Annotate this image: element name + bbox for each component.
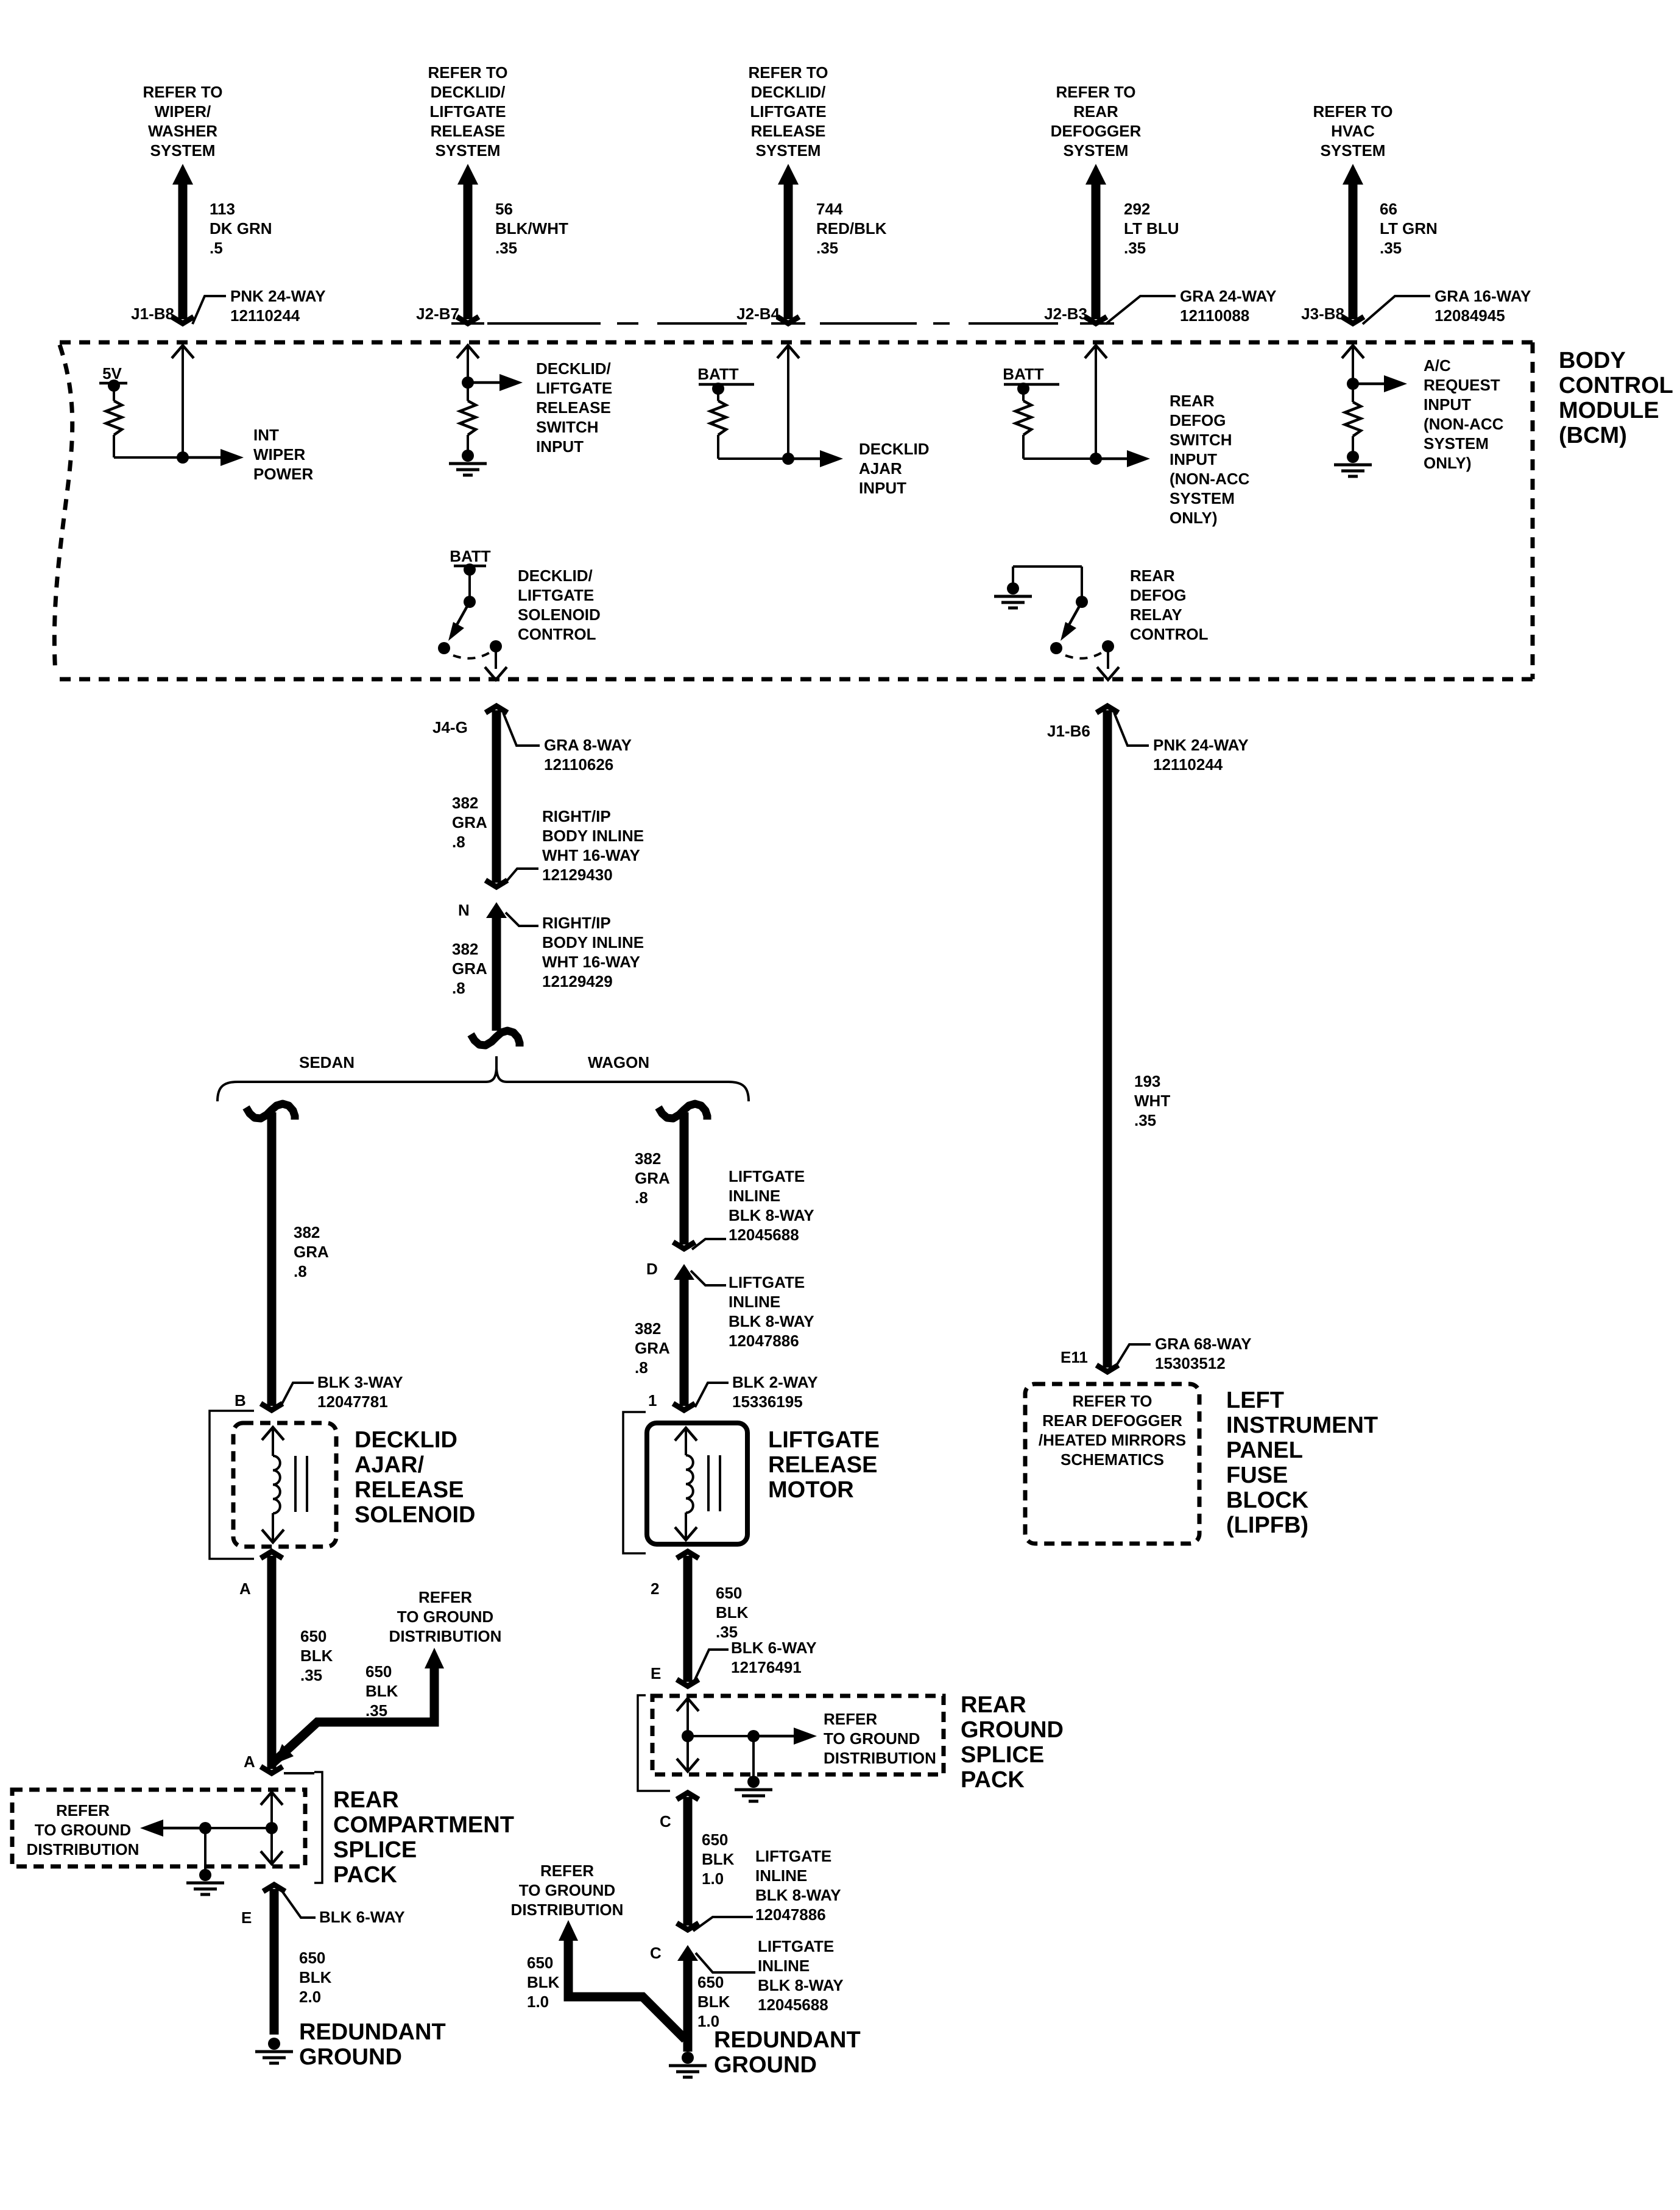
svg-text:REFER TO: REFER TO <box>428 63 508 82</box>
svg-text:113: 113 <box>210 200 235 218</box>
svg-text:WHT 16-WAY: WHT 16-WAY <box>542 953 640 971</box>
svg-text:REQUEST: REQUEST <box>1424 376 1500 394</box>
svg-text:GRA: GRA <box>452 813 487 831</box>
svg-text:382: 382 <box>452 940 478 958</box>
svg-text:LEFT: LEFT <box>1226 1388 1284 1413</box>
svg-text:MOTOR: MOTOR <box>768 1477 854 1503</box>
svg-text:C: C <box>660 1812 671 1830</box>
svg-text:PACK: PACK <box>961 1767 1025 1793</box>
svg-text:REAR DEFOGGER: REAR DEFOGGER <box>1042 1411 1182 1430</box>
svg-text:LIFTGATE: LIFTGATE <box>536 379 612 397</box>
svg-text:SPLICE: SPLICE <box>333 1837 417 1863</box>
svg-text:TO GROUND: TO GROUND <box>824 1729 920 1748</box>
svg-text:LIFTGATE: LIFTGATE <box>429 102 506 121</box>
svg-text:DEFOG: DEFOG <box>1130 586 1186 604</box>
svg-text:B: B <box>235 1391 246 1410</box>
svg-text:BLK: BLK <box>527 1973 560 1991</box>
svg-text:382: 382 <box>635 1319 661 1338</box>
svg-text:PANEL: PANEL <box>1226 1438 1303 1463</box>
svg-text:1.0: 1.0 <box>702 1869 724 1888</box>
svg-text:POWER: POWER <box>253 465 313 483</box>
svg-text:TO GROUND: TO GROUND <box>519 1881 615 1899</box>
svg-text:RELEASE: RELEASE <box>768 1452 877 1478</box>
svg-text:DECKLID/: DECKLID/ <box>751 83 826 101</box>
svg-text:SEDAN: SEDAN <box>299 1053 355 1071</box>
svg-text:RELAY: RELAY <box>1130 605 1182 624</box>
svg-text:12084945: 12084945 <box>1435 306 1505 325</box>
svg-text:650: 650 <box>300 1627 326 1645</box>
svg-text:RIGHT/IP: RIGHT/IP <box>542 914 611 932</box>
svg-text:GRA: GRA <box>452 959 487 978</box>
svg-text:E: E <box>241 1908 252 1927</box>
svg-text:SPLICE: SPLICE <box>961 1742 1044 1768</box>
svg-text:WASHER: WASHER <box>148 122 217 140</box>
svg-text:650: 650 <box>702 1830 728 1849</box>
svg-text:REFER: REFER <box>824 1710 877 1728</box>
svg-text:BLK 6-WAY: BLK 6-WAY <box>319 1908 405 1926</box>
svg-text:BLK 6-WAY: BLK 6-WAY <box>731 1639 817 1657</box>
svg-text:.35: .35 <box>300 1666 322 1684</box>
svg-text:GRA: GRA <box>635 1339 670 1357</box>
svg-text:BLK: BLK <box>300 1647 333 1665</box>
svg-text:J2-B7: J2-B7 <box>416 305 459 323</box>
svg-text:BLK: BLK <box>716 1603 749 1622</box>
svg-text:REAR: REAR <box>1073 102 1118 121</box>
svg-text:650: 650 <box>299 1949 325 1967</box>
svg-text:WHT: WHT <box>1134 1092 1170 1110</box>
svg-text:.35: .35 <box>1134 1111 1156 1129</box>
svg-text:REFER TO: REFER TO <box>1313 102 1393 121</box>
svg-text:LT GRN: LT GRN <box>1380 219 1438 238</box>
svg-text:DISTRIBUTION: DISTRIBUTION <box>27 1840 139 1859</box>
svg-text:.35: .35 <box>495 239 517 257</box>
svg-text:A/C: A/C <box>1424 356 1451 375</box>
svg-text:SYSTEM: SYSTEM <box>436 141 501 160</box>
svg-text:DEFOGGER: DEFOGGER <box>1051 122 1142 140</box>
svg-text:DISTRIBUTION: DISTRIBUTION <box>389 1627 502 1645</box>
svg-text:SWITCH: SWITCH <box>536 418 599 436</box>
svg-text:AJAR: AJAR <box>859 459 902 478</box>
svg-text:12047886: 12047886 <box>755 1905 826 1924</box>
svg-text:REFER: REFER <box>540 1862 594 1880</box>
svg-text:REAR: REAR <box>333 1787 399 1813</box>
svg-text:12045688: 12045688 <box>729 1226 799 1244</box>
svg-text:RELEASE: RELEASE <box>431 122 506 140</box>
svg-text:SYSTEM: SYSTEM <box>1321 141 1386 160</box>
svg-text:REDUNDANT: REDUNDANT <box>299 2019 446 2045</box>
svg-text:650: 650 <box>716 1584 742 1602</box>
svg-text:12047886: 12047886 <box>729 1332 799 1350</box>
svg-text:DECKLID/: DECKLID/ <box>518 567 593 585</box>
svg-text:12129429: 12129429 <box>542 972 613 990</box>
svg-text:2: 2 <box>651 1580 659 1598</box>
svg-text:SYSTEM: SYSTEM <box>1424 434 1489 453</box>
svg-text:COMPARTMENT: COMPARTMENT <box>333 1812 514 1838</box>
svg-text:GRA 8-WAY: GRA 8-WAY <box>544 736 632 754</box>
svg-text:REAR: REAR <box>961 1692 1026 1718</box>
svg-text:15336195: 15336195 <box>732 1393 803 1411</box>
svg-text:WIPER/: WIPER/ <box>155 102 211 121</box>
svg-text:PNK 24-WAY: PNK 24-WAY <box>1153 736 1249 754</box>
svg-text:GRA 16-WAY: GRA 16-WAY <box>1435 287 1531 305</box>
svg-text:15303512: 15303512 <box>1155 1354 1226 1372</box>
svg-text:LT BLU: LT BLU <box>1124 219 1179 238</box>
svg-text:BODY INLINE: BODY INLINE <box>542 827 644 845</box>
svg-text:66: 66 <box>1380 200 1397 218</box>
svg-text:(LIPFB): (LIPFB) <box>1226 1513 1308 1538</box>
svg-text:DISTRIBUTION: DISTRIBUTION <box>511 1901 624 1919</box>
svg-text:RELEASE: RELEASE <box>751 122 826 140</box>
svg-text:GRA: GRA <box>635 1169 670 1187</box>
svg-text:REAR: REAR <box>1170 392 1215 410</box>
svg-text:DECKLID: DECKLID <box>355 1427 457 1453</box>
svg-text:292: 292 <box>1124 200 1150 218</box>
svg-text:382: 382 <box>294 1223 320 1241</box>
svg-text:BLK 2-WAY: BLK 2-WAY <box>732 1373 818 1391</box>
svg-text:J1-B8: J1-B8 <box>131 305 174 323</box>
svg-text:LIFTGATE: LIFTGATE <box>729 1167 805 1185</box>
svg-text:A: A <box>244 1753 255 1771</box>
svg-text:PACK: PACK <box>333 1862 397 1888</box>
svg-text:INLINE: INLINE <box>755 1866 807 1885</box>
svg-text:BLK 8-WAY: BLK 8-WAY <box>729 1312 814 1330</box>
svg-text:744: 744 <box>816 200 843 218</box>
svg-text:(BCM): (BCM) <box>1559 423 1627 448</box>
svg-text:INPUT: INPUT <box>1424 395 1471 414</box>
svg-text:.8: .8 <box>294 1262 307 1280</box>
svg-text:382: 382 <box>452 794 478 812</box>
svg-text:GRA 24-WAY: GRA 24-WAY <box>1180 287 1276 305</box>
svg-text:650: 650 <box>527 1954 553 1972</box>
svg-text:REFER: REFER <box>56 1801 110 1820</box>
svg-text:.35: .35 <box>1124 239 1146 257</box>
svg-text:MODULE: MODULE <box>1559 398 1659 423</box>
svg-text:BLK 3-WAY: BLK 3-WAY <box>317 1373 403 1391</box>
svg-text:DK GRN: DK GRN <box>210 219 272 238</box>
svg-text:BLK: BLK <box>365 1682 398 1700</box>
svg-text:LIFTGATE: LIFTGATE <box>729 1273 805 1291</box>
svg-text:DECKLID: DECKLID <box>859 440 930 458</box>
svg-text:.35: .35 <box>365 1701 387 1720</box>
svg-text:DISTRIBUTION: DISTRIBUTION <box>824 1749 936 1767</box>
svg-text:TO GROUND: TO GROUND <box>397 1608 493 1626</box>
svg-text:BLK: BLK <box>299 1968 332 1986</box>
svg-text:BATT: BATT <box>697 365 739 383</box>
svg-text:PNK 24-WAY: PNK 24-WAY <box>230 287 326 305</box>
svg-text:J4-G: J4-G <box>432 718 468 736</box>
svg-text:1.0: 1.0 <box>527 1993 549 2011</box>
svg-text:AJAR/: AJAR/ <box>355 1452 424 1478</box>
svg-text:RIGHT/IP: RIGHT/IP <box>542 807 611 825</box>
svg-text:INLINE: INLINE <box>729 1293 780 1311</box>
svg-text:BLK 8-WAY: BLK 8-WAY <box>755 1886 841 1904</box>
svg-text:INPUT: INPUT <box>859 479 906 497</box>
svg-text:HVAC: HVAC <box>1331 122 1375 140</box>
svg-text:.8: .8 <box>635 1358 648 1377</box>
svg-text:.8: .8 <box>635 1188 648 1207</box>
svg-text:(NON-ACC: (NON-ACC <box>1424 415 1504 433</box>
svg-text:12110088: 12110088 <box>1180 306 1249 325</box>
svg-text:12110244: 12110244 <box>230 306 300 325</box>
svg-text:BODY: BODY <box>1559 348 1626 373</box>
svg-text:193: 193 <box>1134 1072 1160 1090</box>
svg-text:A: A <box>239 1580 251 1598</box>
svg-text:REDUNDANT: REDUNDANT <box>714 2027 861 2053</box>
svg-text:REFER: REFER <box>418 1588 472 1606</box>
svg-text:BLOCK: BLOCK <box>1226 1488 1309 1513</box>
svg-text:J1-B6: J1-B6 <box>1047 722 1090 740</box>
svg-text:650: 650 <box>365 1662 392 1681</box>
svg-text:INT: INT <box>253 426 279 444</box>
svg-text:GROUND: GROUND <box>299 2044 402 2070</box>
svg-text:REFER TO: REFER TO <box>1073 1392 1152 1410</box>
svg-text:J2-B3: J2-B3 <box>1044 305 1087 323</box>
svg-text:BLK 8-WAY: BLK 8-WAY <box>758 1976 844 1994</box>
svg-text:DECKLID/: DECKLID/ <box>536 359 611 378</box>
svg-text:BLK/WHT: BLK/WHT <box>495 219 568 238</box>
svg-text:SYSTEM: SYSTEM <box>150 141 216 160</box>
svg-text:BLK 8-WAY: BLK 8-WAY <box>729 1206 814 1224</box>
svg-text:.35: .35 <box>816 239 838 257</box>
svg-text:WHT 16-WAY: WHT 16-WAY <box>542 846 640 864</box>
svg-text:CONTROL: CONTROL <box>1559 373 1673 398</box>
svg-text:J3-B8: J3-B8 <box>1301 305 1344 323</box>
svg-text:CONTROL: CONTROL <box>518 625 596 643</box>
svg-text:ONLY): ONLY) <box>1424 454 1472 472</box>
svg-text:.5: .5 <box>210 239 223 257</box>
svg-text:RED/BLK: RED/BLK <box>816 219 887 238</box>
svg-text:D: D <box>646 1260 658 1278</box>
svg-text:E11: E11 <box>1061 1348 1088 1366</box>
svg-text:DEFOG: DEFOG <box>1170 411 1226 429</box>
svg-text:12176491: 12176491 <box>731 1658 802 1676</box>
svg-text:BLK: BLK <box>702 1850 735 1868</box>
svg-text:BODY INLINE: BODY INLINE <box>542 933 644 951</box>
svg-text:WIPER: WIPER <box>253 445 305 464</box>
svg-text:12110244: 12110244 <box>1153 755 1223 774</box>
svg-text:REFER TO: REFER TO <box>1056 83 1136 101</box>
svg-text:BATT: BATT <box>1003 365 1044 383</box>
svg-text:SYSTEM: SYSTEM <box>1170 489 1235 507</box>
svg-text:SWITCH: SWITCH <box>1170 431 1232 449</box>
svg-text:GROUND: GROUND <box>961 1717 1064 1743</box>
svg-text:.8: .8 <box>452 833 465 851</box>
svg-text:SYSTEM: SYSTEM <box>1064 141 1129 160</box>
svg-text:12129430: 12129430 <box>542 866 613 884</box>
svg-text:12045688: 12045688 <box>758 1996 828 2014</box>
svg-text:E: E <box>651 1664 661 1682</box>
svg-text:650: 650 <box>697 1973 724 1991</box>
svg-text:INPUT: INPUT <box>1170 450 1217 468</box>
svg-text:SOLENOID: SOLENOID <box>355 1502 475 1528</box>
svg-text:GRA: GRA <box>294 1243 329 1261</box>
svg-text:SYSTEM: SYSTEM <box>756 141 821 160</box>
svg-text:.8: .8 <box>452 979 465 997</box>
svg-text:REAR: REAR <box>1130 567 1175 585</box>
svg-text:TO GROUND: TO GROUND <box>35 1821 131 1839</box>
svg-text:LIFTGATE: LIFTGATE <box>758 1937 834 1955</box>
svg-text:LIFTGATE: LIFTGATE <box>750 102 826 121</box>
svg-text:RELEASE: RELEASE <box>355 1477 464 1503</box>
svg-text:REFER TO: REFER TO <box>749 63 828 82</box>
svg-text:INSTRUMENT: INSTRUMENT <box>1226 1413 1378 1438</box>
svg-text:12047781: 12047781 <box>317 1393 388 1411</box>
svg-text:INLINE: INLINE <box>758 1957 810 1975</box>
svg-text:.35: .35 <box>1380 239 1402 257</box>
svg-text:LIFTGATE: LIFTGATE <box>768 1427 880 1453</box>
svg-text:DECKLID/: DECKLID/ <box>431 83 506 101</box>
svg-text:RELEASE: RELEASE <box>536 398 611 417</box>
svg-text:ONLY): ONLY) <box>1170 509 1218 527</box>
svg-text:CONTROL: CONTROL <box>1130 625 1209 643</box>
svg-text:1: 1 <box>648 1391 657 1410</box>
svg-text:BLK: BLK <box>697 1993 730 2011</box>
svg-text:382: 382 <box>635 1149 661 1168</box>
svg-text:GROUND: GROUND <box>714 2052 817 2078</box>
svg-text:INLINE: INLINE <box>729 1187 780 1205</box>
svg-text:12110626: 12110626 <box>544 755 613 774</box>
svg-text:J2-B4: J2-B4 <box>736 305 780 323</box>
svg-text:INPUT: INPUT <box>536 437 584 456</box>
svg-text:WAGON: WAGON <box>588 1053 649 1071</box>
svg-text:N: N <box>458 901 470 919</box>
svg-text:56: 56 <box>495 200 513 218</box>
svg-text:LIFTGATE: LIFTGATE <box>755 1847 831 1865</box>
svg-text:LIFTGATE: LIFTGATE <box>518 586 594 604</box>
svg-text:C: C <box>650 1944 662 1962</box>
svg-text:/HEATED MIRRORS: /HEATED MIRRORS <box>1039 1431 1186 1449</box>
svg-text:FUSE: FUSE <box>1226 1463 1288 1488</box>
svg-text:GRA 68-WAY: GRA 68-WAY <box>1155 1335 1251 1353</box>
svg-text:2.0: 2.0 <box>299 1988 321 2006</box>
svg-text:REFER TO: REFER TO <box>143 83 223 101</box>
svg-text:(NON-ACC: (NON-ACC <box>1170 470 1250 488</box>
svg-text:SCHEMATICS: SCHEMATICS <box>1061 1450 1164 1469</box>
svg-text:SOLENOID: SOLENOID <box>518 605 601 624</box>
svg-text:BATT: BATT <box>450 547 491 565</box>
